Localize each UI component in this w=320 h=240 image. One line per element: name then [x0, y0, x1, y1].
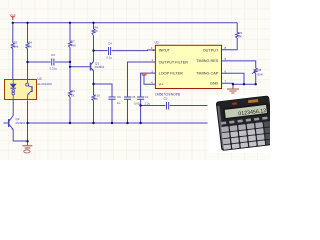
resistor R9: [68, 91, 71, 97]
wire top VCC rail: [13, 22, 237, 24]
svg-text:LOOP FILTER: LOOP FILTER: [159, 72, 184, 76]
resistor R10: [92, 95, 95, 101]
svg-text:0.1u: 0.1u: [107, 56, 113, 60]
wire IC pin2 to C1: [141, 73, 156, 97]
wire C2 to right end: [170, 105, 208, 107]
svg-text:10k: 10k: [14, 44, 19, 48]
wire Q2 emitter to ground node: [13, 130, 27, 141]
transistor Q2: [9, 116, 14, 130]
calculator photo white backing: [209, 95, 271, 153]
svg-text:2.2u: 2.2u: [145, 101, 151, 105]
wire C3 to x=70: [55, 61, 70, 63]
svg-text:C2: C2: [164, 96, 168, 100]
svg-text:2N3904: 2N3904: [95, 65, 105, 69]
wire C2 tap row y=105.5: [141, 105, 166, 107]
svg-text:GND: GND: [210, 82, 219, 86]
capacitor C2: [167, 102, 169, 110]
power VCC symbol top left: [11, 17, 15, 20]
svg-text:0.01u: 0.01u: [134, 101, 141, 105]
wire Q1 emitter down through R10: [93, 71, 95, 124]
capacitor C6: [109, 97, 116, 99]
pin numbers: [151, 46, 227, 84]
svg-text:INPUT: INPUT: [159, 48, 171, 52]
capacitor C5: [124, 97, 131, 99]
svg-text:R7: R7: [71, 39, 75, 43]
ground symbol GND1: [23, 141, 33, 153]
wire C6 to bus: [111, 100, 113, 124]
svg-text:OUTPUT FILTER: OUTPUT FILTER: [159, 60, 189, 64]
svg-text:C4: C4: [108, 42, 112, 46]
svg-text:LM567CN/NOPB: LM567CN/NOPB: [155, 92, 181, 96]
svg-text:U1: U1: [155, 40, 159, 44]
wire Q2 base stub: [4, 122, 9, 124]
wire opto emitter to bus and ground: [27, 101, 29, 142]
optocoupler U3 box: [5, 80, 37, 100]
wire C1 to bus: [140, 100, 142, 124]
wire IC pin7 gnd stub: [222, 83, 234, 88]
wire IC pin1 to C5: [128, 62, 156, 97]
svg-text:2N3904: 2N3904: [16, 121, 26, 125]
svg-text:40K: 40K: [71, 44, 76, 48]
transistor Q1: [91, 62, 94, 71]
svg-text:TIMING RES: TIMING RES: [196, 59, 219, 63]
svg-text:2K: 2K: [94, 29, 98, 33]
resistor R4: [26, 43, 29, 49]
svg-text:0.22u: 0.22u: [50, 67, 57, 71]
power VCC symbol at pin4: [142, 74, 147, 76]
svg-text:2K: 2K: [238, 34, 242, 38]
wire signal row y=62 opto to node: [28, 61, 51, 63]
wire C5 to bus: [127, 100, 129, 124]
svg-text:OUTPUT: OUTPUT: [203, 48, 219, 52]
wire R5 top to rail: [236, 23, 238, 33]
IC U1 LM567 box: [155, 45, 221, 88]
resistor R2: [11, 43, 14, 49]
wire R4 branch x=27.5: [27, 23, 29, 83]
wire C4 to IC input pin3: [112, 49, 156, 52]
wire C4 row y=50.6: [94, 50, 108, 52]
svg-text:50K: 50K: [258, 72, 263, 76]
capacitor C1: [137, 97, 144, 99]
wire IC pin4 V+ to VCC: [144, 76, 155, 85]
resistor R5: [236, 33, 239, 39]
wire emitter tap y=84 to C6: [94, 84, 113, 97]
svg-text:C5: C5: [132, 95, 136, 99]
svg-text:1u: 1u: [117, 101, 121, 105]
pin 3 input dot: [152, 49, 154, 51]
svg-text:2K: 2K: [94, 97, 98, 101]
wire IC pin8 output to R5: [222, 38, 238, 50]
wire R2 branch x=13.2: [12, 23, 14, 84]
svg-text:VCC: VCC: [10, 13, 17, 17]
wire Q1 collector up: [93, 51, 95, 62]
IC U1 pin names: [159, 48, 219, 86]
wire Q1 base row y=66.8: [70, 66, 90, 68]
svg-text:2K: 2K: [28, 44, 32, 48]
optocoupler U3 phototransistor: [26, 80, 32, 100]
wire pot to gnd row: [255, 74, 257, 85]
junction nodes: [12, 22, 257, 143]
svg-text:U3: U3: [38, 77, 42, 81]
wire R6 branch x=93.5: [93, 23, 95, 51]
svg-text:1K: 1K: [71, 93, 75, 97]
capacitor C4: [109, 47, 111, 55]
potentiometer R8: [252, 68, 257, 74]
svg-text:EL3C1000: EL3C1000: [38, 82, 53, 86]
svg-text:V+: V+: [159, 83, 165, 87]
wire IC pin6 timing cap down: [222, 73, 245, 84]
wire timing gnd row y=84.2: [233, 83, 256, 85]
optocoupler U3 LED: [10, 80, 16, 100]
svg-text:C6: C6: [117, 95, 121, 99]
wire IC pin5 timing res to pot: [222, 61, 256, 68]
labels layer: [10, 13, 263, 125]
ground symbol GND2: [227, 89, 239, 93]
wire ground bus y=123: [28, 122, 208, 124]
wire opto LED cathode to Q2 collector: [12, 96, 14, 116]
resistor R6: [92, 29, 95, 36]
wire R7 branch x=70: [69, 23, 71, 123]
svg-text:C1: C1: [145, 95, 149, 99]
svg-text:VCC: VCC: [141, 71, 148, 75]
capacitor C3: [52, 59, 54, 66]
resistor R7: [68, 42, 71, 48]
svg-text:TIMING CAP: TIMING CAP: [196, 72, 219, 76]
calculator photo: [216, 96, 274, 151]
svg-text:C3: C3: [51, 53, 55, 57]
